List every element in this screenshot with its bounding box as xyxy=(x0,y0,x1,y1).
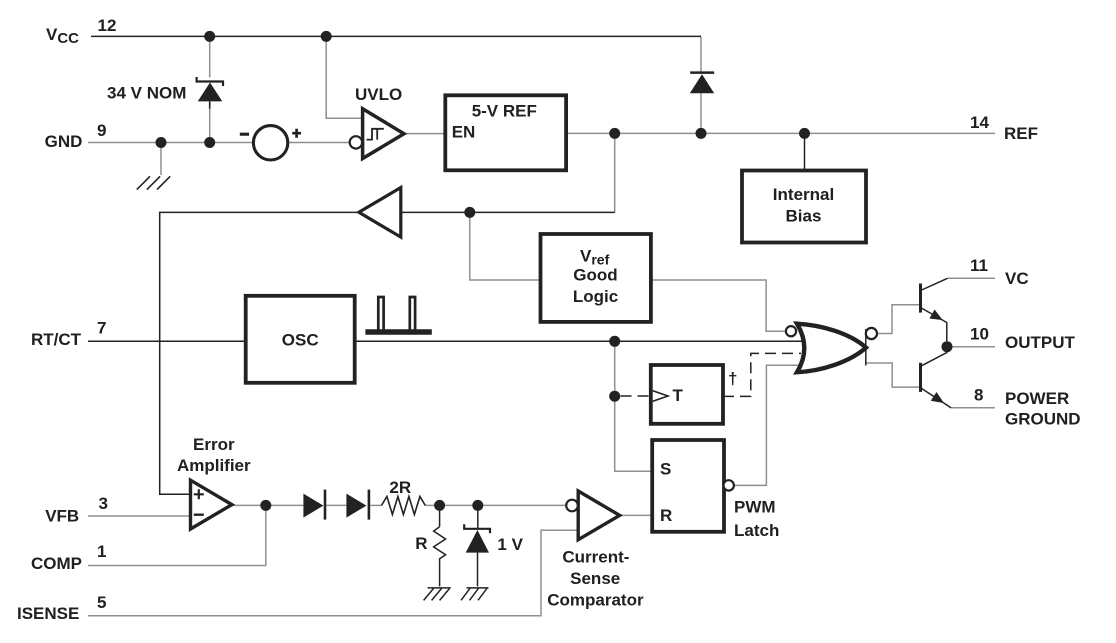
wire latch S input from clock node xyxy=(615,341,653,471)
transistor Q1 collector xyxy=(921,278,948,290)
wire diode segment D3 to D4 xyxy=(326,504,346,506)
junction VCC-UVLO branch xyxy=(321,31,332,42)
svg-text:Current-: Current- xyxy=(562,547,629,566)
svg-text:12: 12 xyxy=(98,16,117,35)
svg-text:Internal: Internal xyxy=(773,185,834,204)
svg-text:REF: REF xyxy=(1004,124,1038,143)
junction clock node to T xyxy=(609,391,620,402)
wire VFB pin line xyxy=(88,515,191,517)
svg-text:OSC: OSC xyxy=(282,331,319,350)
wire Q1 base drive xyxy=(877,305,919,334)
svg-text:OUTPUT: OUTPUT xyxy=(1005,333,1076,352)
source circle (UVLO sense) xyxy=(253,126,287,160)
wire REF net 5-V REF output to pin 14 xyxy=(566,132,995,134)
wire OR gate tip vertical xyxy=(865,329,867,366)
wire inverter input line xyxy=(401,211,615,213)
svg-text:VC: VC xyxy=(1005,269,1029,288)
wire node A down to Vref Good Logic input xyxy=(470,212,541,280)
svg-text:Comparator: Comparator xyxy=(547,590,644,609)
op-amp Error Amplifier U6 xyxy=(191,480,232,529)
svg-text:Good: Good xyxy=(573,266,617,285)
svg-text:S: S xyxy=(660,460,671,479)
op-amp Current-Sense Comparator U7 xyxy=(578,491,620,540)
svg-text:COMP: COMP xyxy=(31,554,82,573)
junction GND-ground xyxy=(156,137,167,148)
wire Vref Good Logic output to OR gate top input xyxy=(651,280,786,331)
zener diode D1 34 V NOM xyxy=(197,77,223,109)
bubble OR gate top input xyxy=(786,326,796,336)
bubble comparator upper input xyxy=(566,500,578,512)
zener diode D5 1 V xyxy=(464,505,490,586)
wire POWER GROUND pin 8 line xyxy=(951,407,996,409)
svg-text:Latch: Latch xyxy=(734,521,779,540)
svg-text:3: 3 xyxy=(99,494,108,513)
svg-text:14: 14 xyxy=(970,113,989,132)
junction node B divider top xyxy=(434,500,445,511)
resistor R xyxy=(434,505,446,586)
box Vref Good Logic U3 xyxy=(541,234,651,322)
wire zener D1 bottom lead xyxy=(209,107,211,143)
box Internal Bias U2 xyxy=(742,171,866,243)
svg-text:Logic: Logic xyxy=(573,287,618,306)
svg-text:5-V REF: 5-V REF xyxy=(472,102,537,121)
junction GND-zener xyxy=(204,137,215,148)
diode D3 xyxy=(303,490,325,520)
wire latch Qbar to OR gate bottom input xyxy=(734,365,800,485)
svg-text:POWER: POWER xyxy=(1005,389,1069,408)
wire Q2 base drive xyxy=(866,363,919,387)
svg-text:EN: EN xyxy=(452,123,476,142)
inverter buffer U4 (2.5-V ref) xyxy=(359,188,401,238)
wire VCC rail pin 12 xyxy=(91,35,701,37)
junction RT/CT clock takeoff xyxy=(609,336,620,347)
wire zener D1 top lead xyxy=(209,36,211,77)
svg-text:10: 10 xyxy=(970,325,989,344)
wire REF net drop to inverter line xyxy=(614,133,616,212)
wire inverter output to error amp + input xyxy=(160,212,359,494)
diode D4 xyxy=(346,490,369,520)
svg-text:9: 9 xyxy=(97,121,106,140)
bubble OR gate output xyxy=(866,328,877,339)
wire GND rail pin9 xyxy=(88,142,254,144)
junction node C zener clamp xyxy=(472,500,483,511)
junction VCC-zener xyxy=(204,31,215,42)
svg-text:1 V: 1 V xyxy=(497,535,523,554)
svg-text:34 V NOM: 34 V NOM xyxy=(107,84,186,103)
minus sign of source xyxy=(240,133,249,136)
junction REF-inverter drop xyxy=(609,128,620,139)
transistor Q1 base bar xyxy=(919,284,922,313)
svg-text:ISENSE: ISENSE xyxy=(17,604,79,623)
svg-text:UVLO: UVLO xyxy=(355,85,402,104)
svg-text:†: † xyxy=(728,369,737,388)
junction REF-diode xyxy=(696,128,707,139)
svg-text:1: 1 xyxy=(97,542,106,561)
svg-text:VFB: VFB xyxy=(45,506,79,525)
wire error amp output to COMP node xyxy=(232,504,304,506)
dashed wire toggle T output to OR gate input xyxy=(723,353,801,396)
wire source circle to UVLO bubble xyxy=(288,142,351,144)
transistor Q2 base bar xyxy=(919,363,922,392)
wire OUTPUT pin 10 line xyxy=(949,346,995,348)
svg-text:Error: Error xyxy=(193,435,235,454)
hysteresis glyph inside UVLO xyxy=(367,129,384,140)
wire ground stub at pin 9 xyxy=(160,143,162,176)
wire UVLO output to EN xyxy=(404,133,445,135)
clock input symbol of T xyxy=(653,391,668,401)
box PWM Latch U9 xyxy=(652,440,724,532)
transistor Q2 collector xyxy=(921,347,947,366)
svg-text:Amplifier: Amplifier xyxy=(177,456,251,475)
svg-text:T: T xyxy=(673,386,684,405)
svg-text:RT/CT: RT/CT xyxy=(31,330,82,349)
wire node B to node C xyxy=(440,504,478,506)
ground symbol under zener D5 xyxy=(461,588,489,600)
resistor 2R xyxy=(381,497,425,515)
svg-text:11: 11 xyxy=(970,256,988,275)
svg-text:R: R xyxy=(660,506,672,525)
wire RT/CT rail pin 7 xyxy=(88,340,802,342)
wire ISENSE pin line to comparator xyxy=(88,530,578,616)
op-amp UVLO comparator xyxy=(363,109,404,159)
wire VC pin 11 line xyxy=(948,277,996,279)
bubble UVLO lower input xyxy=(350,136,362,148)
svg-text:2R: 2R xyxy=(389,478,411,497)
junction REF-Internal Bias xyxy=(799,128,810,139)
junction OUTPUT totem pole xyxy=(942,341,953,352)
box toggle flip-flop T U8 xyxy=(651,365,723,424)
svg-text:5: 5 xyxy=(97,593,106,612)
junction node A on inverter line xyxy=(464,207,475,218)
diode D2 (VCC to REF) xyxy=(690,73,714,94)
transistor Q2 emitter with arrow xyxy=(921,388,952,408)
transistor Q1 emitter with arrow xyxy=(921,308,947,342)
plus sign in error amp xyxy=(194,489,204,499)
wire VCC branch to UVLO top input xyxy=(326,36,362,118)
wire REF net drop to Internal Bias xyxy=(804,133,806,170)
oscillator pulse waveform xyxy=(365,297,431,333)
wire comparator output to latch R input xyxy=(620,514,653,516)
dashed wire clock node to toggle T xyxy=(621,395,651,397)
svg-text:PWM: PWM xyxy=(734,498,776,517)
wire VCC corner down to diode D2 xyxy=(700,37,702,72)
svg-text:GND: GND xyxy=(45,132,83,151)
wire diode D4 to resistor 2R xyxy=(370,504,381,506)
ground symbol under R xyxy=(424,588,451,601)
plus sign of source xyxy=(292,129,301,138)
svg-text:R: R xyxy=(415,534,427,553)
OR gate U10 xyxy=(797,324,866,373)
svg-text:Sense: Sense xyxy=(570,569,620,588)
junction COMP node xyxy=(260,500,271,511)
box OSC U5 xyxy=(246,296,355,383)
svg-text:7: 7 xyxy=(97,319,106,338)
box 5-V REF U1 xyxy=(445,95,566,170)
minus sign in error amp xyxy=(194,514,204,516)
wire 2R to node B xyxy=(425,504,439,506)
svg-text:8: 8 xyxy=(974,386,983,405)
svg-text:Bias: Bias xyxy=(786,207,822,226)
svg-text:GROUND: GROUND xyxy=(1005,410,1081,429)
wire node C to comparator bubble xyxy=(478,504,566,506)
wire diode D2 lower lead to REF net xyxy=(700,93,702,133)
bubble latch Qbar output xyxy=(724,480,734,490)
wire COMP pin line xyxy=(88,505,266,565)
ground symbol at pin 9 xyxy=(137,176,170,189)
